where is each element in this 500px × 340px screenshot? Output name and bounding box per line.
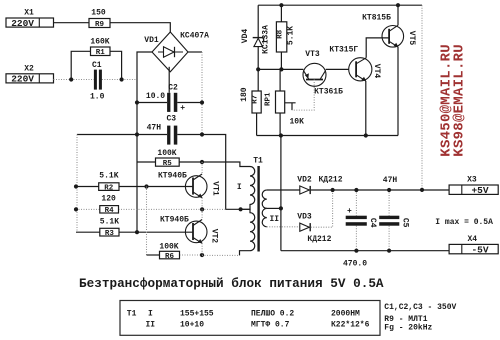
resistor R6 xyxy=(147,242,203,260)
svg-text:220V: 220V xyxy=(11,18,34,29)
capacitor C1 xyxy=(90,61,105,102)
wire top rail right end down (dotted) xyxy=(421,5,423,190)
svg-text:КТ940Б: КТ940Б xyxy=(158,171,187,180)
svg-text:KS98@EMAIL.RU: KS98@EMAIL.RU xyxy=(451,44,467,156)
node VD3 output junction xyxy=(331,188,335,192)
svg-text:VT1: VT1 xyxy=(211,181,220,196)
terminal X1 xyxy=(6,9,54,29)
lower rail of control block xyxy=(257,135,398,137)
svg-text:КС407А: КС407А xyxy=(180,31,209,40)
node VD4 base-line junction xyxy=(256,67,260,71)
secondary upper winding xyxy=(262,190,267,208)
svg-text:КТ815Б: КТ815Б xyxy=(362,14,391,23)
diode VD2 KD212 xyxy=(297,176,342,195)
node R3 bus junction xyxy=(135,230,139,234)
transformer T1 xyxy=(237,157,283,256)
node R2-R6 junction xyxy=(144,184,148,188)
wire -5V rail xyxy=(281,250,449,252)
svg-text:Безтрансформаторный блок питан: Безтрансформаторный блок питания 5V 0.5A xyxy=(79,276,384,291)
node output rail junction xyxy=(420,188,424,192)
resistor R8 xyxy=(276,5,295,69)
wire VT1 collector/emitter stubs (dotted) xyxy=(201,162,203,209)
svg-text:-5V: -5V xyxy=(471,244,488,255)
svg-text:C3: C3 xyxy=(166,115,176,124)
svg-text:ПЕЛШО 0.2: ПЕЛШО 0.2 xyxy=(251,309,294,318)
node VT4 emitter junction xyxy=(364,133,368,137)
svg-text:VT5: VT5 xyxy=(407,31,416,46)
wire R6 column (dotted) xyxy=(146,187,148,256)
wire VT2 collector/emitter stubs (dotted) xyxy=(201,209,203,255)
secondary lower winding xyxy=(262,208,267,226)
svg-text:155+155: 155+155 xyxy=(180,309,214,318)
svg-text:VD1: VD1 xyxy=(144,36,159,45)
top rail xyxy=(258,4,422,6)
node VT1 emitter junction xyxy=(200,207,204,211)
svg-text:МГТФ 0.7: МГТФ 0.7 xyxy=(251,321,290,330)
wire bridge right vertex xyxy=(188,51,202,53)
svg-text:180: 180 xyxy=(240,87,249,102)
svg-text:2000НМ: 2000НМ xyxy=(331,309,360,318)
svg-text:100K: 100K xyxy=(159,242,178,251)
table xyxy=(120,301,380,336)
wire secondary top to +5V rail xyxy=(267,189,449,191)
svg-text:C1,C2,C3 - 350V: C1,C2,C3 - 350V xyxy=(384,303,456,312)
node C2 left xyxy=(135,100,139,104)
node C5 bottom junction xyxy=(387,249,391,253)
wire bridge bottom to C2 xyxy=(168,67,170,93)
svg-text:X2: X2 xyxy=(24,65,34,74)
svg-text:I: I xyxy=(148,309,153,318)
primary lower winding xyxy=(240,209,255,255)
node R2 left junction xyxy=(74,184,78,188)
wire VD3 to rail (dotted) xyxy=(311,190,333,227)
svg-text:C2: C2 xyxy=(168,84,178,93)
resistor R5 xyxy=(137,149,202,168)
wire VT2 emitter to primary bottom (dotted) xyxy=(202,254,240,256)
capacitor C5 xyxy=(379,190,409,251)
svg-text:10K: 10K xyxy=(290,118,305,127)
svg-text:II: II xyxy=(146,321,156,330)
transistor VT3 KT361B xyxy=(303,50,343,96)
wire VT3 collector to VT4 base xyxy=(326,68,349,70)
svg-text:R1: R1 xyxy=(96,49,106,57)
svg-text:Т1: Т1 xyxy=(127,309,137,318)
wire VT4 emitter down xyxy=(365,81,367,136)
svg-text:VT2: VT2 xyxy=(210,229,219,244)
resistor R3 xyxy=(76,217,193,238)
wire VT5 collector to rail xyxy=(397,5,399,25)
wire primary feed top xyxy=(202,162,250,167)
svg-text:5.1K: 5.1K xyxy=(100,217,119,226)
svg-text:X1: X1 xyxy=(24,9,34,18)
wire VT5 emitter down xyxy=(397,47,399,136)
wire VT4 collector to VT5 base xyxy=(366,38,389,58)
svg-text:КД212: КД212 xyxy=(307,235,331,244)
node C5 top junction xyxy=(387,188,391,192)
svg-text:I max = 0.5A: I max = 0.5A xyxy=(435,218,493,227)
svg-text:R7: R7 xyxy=(252,95,260,104)
svg-text:120: 120 xyxy=(101,194,116,203)
node junction X2-R1 right xyxy=(120,77,124,81)
svg-text:VD3: VD3 xyxy=(297,212,312,221)
svg-text:VT3: VT3 xyxy=(305,50,320,59)
node C3 left xyxy=(135,132,139,136)
svg-text:II: II xyxy=(269,215,279,224)
resistor R2 xyxy=(76,171,193,192)
node VT2 emitter junction xyxy=(200,253,204,257)
secondary center tap xyxy=(267,207,281,209)
svg-text:R3: R3 xyxy=(105,230,115,238)
node R4 left junction xyxy=(74,207,78,211)
transistor VT1 KT940B xyxy=(158,171,220,198)
svg-text:I: I xyxy=(237,183,242,192)
wire right bus dotted segments xyxy=(201,52,203,135)
svg-text:160K: 160K xyxy=(90,38,109,47)
capacitor C4 xyxy=(346,190,377,251)
svg-text:10+10: 10+10 xyxy=(180,321,204,330)
svg-text:R4: R4 xyxy=(105,207,115,215)
wire secondary bottom lead (dotted) xyxy=(267,226,300,228)
wire X1 to R9 to bridge top xyxy=(54,23,171,32)
svg-text:RP1: RP1 xyxy=(265,92,273,106)
svg-text:1.0: 1.0 xyxy=(90,92,105,101)
node C4 bottom junction xyxy=(354,249,358,253)
svg-text:C1: C1 xyxy=(92,61,102,70)
svg-text:47Н: 47Н xyxy=(147,124,162,133)
svg-text:C5: C5 xyxy=(401,218,410,228)
terminal X3 xyxy=(449,176,498,197)
wire VT3 base to RP1 wiper (dotted) xyxy=(292,80,314,111)
node VT5 collector junction xyxy=(396,3,400,7)
svg-text:VT4: VT4 xyxy=(372,64,381,79)
resistor R4 xyxy=(76,194,226,215)
svg-text:470.0: 470.0 xyxy=(343,259,367,268)
svg-text:VD4: VD4 xyxy=(241,29,250,44)
diode VD3 KD212 xyxy=(297,212,331,244)
capacitor C3 xyxy=(77,115,202,145)
svg-text:R6: R6 xyxy=(165,253,175,261)
svg-text:C4: C4 xyxy=(368,218,377,228)
svg-text:КТ361Б: КТ361Б xyxy=(314,87,343,96)
svg-text:Fg - 20kHz: Fg - 20kHz xyxy=(384,324,432,333)
terminal X4 xyxy=(449,235,498,255)
svg-text:КТ315Г: КТ315Г xyxy=(329,45,358,54)
svg-text:X4: X4 xyxy=(467,235,477,244)
wire left column down (dotted) xyxy=(76,135,78,233)
wire center-tap feed xyxy=(202,135,241,210)
wire X2 row (dotted) xyxy=(54,79,138,81)
core xyxy=(257,166,259,252)
svg-text:VD2: VD2 xyxy=(297,176,312,185)
svg-text:+5V: +5V xyxy=(471,185,488,196)
svg-text:КД212: КД212 xyxy=(318,176,342,185)
bridge rectifier VD1 xyxy=(144,31,209,72)
resistor R9 xyxy=(89,9,110,29)
svg-text:220V: 220V xyxy=(11,74,34,85)
potentiometer RP1 xyxy=(265,69,305,135)
svg-text:10.0: 10.0 xyxy=(146,92,165,101)
svg-text:Т1: Т1 xyxy=(253,157,263,166)
zener VD4 KS133A xyxy=(241,5,271,91)
node R8 bottom junction xyxy=(279,67,283,71)
svg-text:R9 - МЛТ1: R9 - МЛТ1 xyxy=(384,315,427,324)
resistor R1 with bent leads xyxy=(71,38,121,80)
svg-text:47Н: 47Н xyxy=(383,176,398,185)
primary upper winding xyxy=(241,167,255,210)
svg-text:+: + xyxy=(347,207,352,216)
svg-text:+: + xyxy=(180,104,185,113)
transistor VT4 KT315G xyxy=(329,45,381,81)
svg-text:5.1K: 5.1K xyxy=(99,171,118,180)
node R5 right xyxy=(200,160,204,164)
node junction X2-R1 left xyxy=(69,77,73,81)
node C3 right xyxy=(200,132,204,136)
node C2 right xyxy=(200,100,204,104)
svg-text:100K: 100K xyxy=(157,149,176,158)
transistor VT2 KT940B xyxy=(160,215,219,243)
wire secondary tap down to -5V rail xyxy=(280,136,282,251)
svg-text:R9: R9 xyxy=(95,21,105,29)
capacitor C2 xyxy=(137,84,202,113)
node C4 top junction xyxy=(354,188,358,192)
node R8 top junction xyxy=(279,3,283,7)
node primary center tap xyxy=(239,207,243,211)
svg-text:5.1K: 5.1K xyxy=(287,26,296,45)
svg-text:КТ940Б: КТ940Б xyxy=(160,215,189,224)
svg-text:КС133А: КС133А xyxy=(262,25,271,54)
resistor R7 xyxy=(240,87,261,135)
svg-text:К22*12*6: К22*12*6 xyxy=(331,321,370,330)
svg-text:R2: R2 xyxy=(104,184,114,192)
wire base line y69 xyxy=(258,68,303,70)
svg-text:R5: R5 xyxy=(163,160,173,168)
svg-text:X3: X3 xyxy=(467,176,477,185)
svg-text:150: 150 xyxy=(91,9,106,18)
wire bridge left vertex down the left bus xyxy=(137,52,152,232)
node RP1 bottom junction xyxy=(279,133,283,137)
transistor VT5 KT815B xyxy=(362,14,416,48)
svg-text:R8: R8 xyxy=(277,29,285,39)
terminal X2 xyxy=(6,65,54,85)
